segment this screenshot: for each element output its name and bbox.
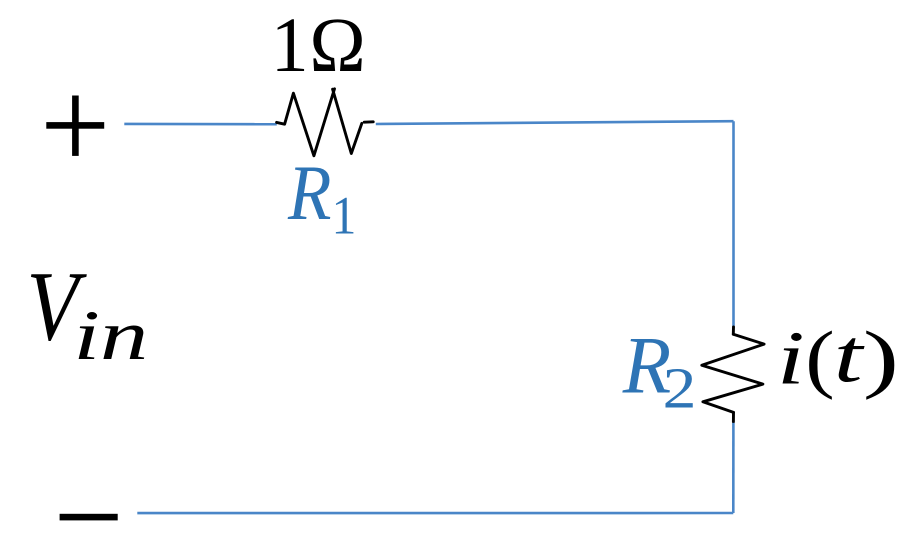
svg-text:(: (: [805, 315, 834, 400]
wire bottom from corner to minus terminal: [137, 512, 733, 515]
svg-text:t: t: [834, 313, 866, 398]
svg-text:2: 2: [663, 355, 697, 421]
wire from plus terminal to R1 left: [124, 123, 276, 126]
wire from R1 right to top-right corner: [376, 121, 734, 124]
voltage source Vin minus terminal: [60, 514, 118, 521]
label R1: [287, 150, 356, 246]
label R2: [622, 320, 697, 420]
svg-text:in: in: [73, 297, 148, 375]
current label i(t): [777, 313, 899, 400]
svg-text:i: i: [777, 316, 805, 401]
svg-text:R: R: [287, 150, 331, 237]
label Vin: [27, 251, 149, 375]
svg-text:1Ω: 1Ω: [271, 2, 367, 88]
wire right side upper segment down to R2: [732, 121, 735, 326]
value label 1 ohm for R1: [271, 2, 367, 88]
voltage source Vin plus terminal: [46, 96, 104, 156]
resistor R2 zigzag: [702, 327, 764, 422]
svg-text:): ): [863, 316, 899, 400]
wire right side lower segment from R2 to bottom-right corner: [732, 423, 735, 513]
svg-text:1: 1: [332, 187, 357, 247]
resistor R1 zigzag: [277, 89, 374, 156]
